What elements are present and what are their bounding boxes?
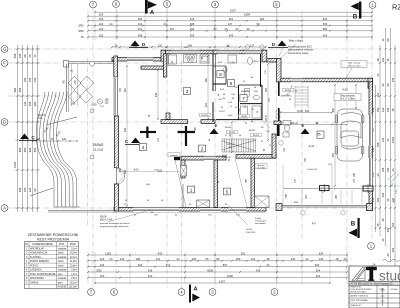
section marker E garage [301, 123, 310, 134]
section marker D left [129, 41, 148, 48]
svg-text:Ø110: Ø110 [253, 61, 259, 63]
grid bubble 7 bottom [88, 289, 95, 296]
svg-text:700: 700 [386, 167, 390, 172]
svg-text:150: 150 [99, 33, 104, 37]
svg-text:203: 203 [381, 192, 385, 197]
room label boxes [139, 71, 324, 195]
svg-text:24: 24 [225, 27, 228, 31]
extra hall micro labels [218, 87, 298, 207]
terrace bottom line [48, 210, 114, 212]
svg-text:A: A [150, 10, 154, 16]
svg-text:13x17,5: 13x17,5 [226, 144, 235, 146]
svg-text:183: 183 [192, 257, 197, 261]
exterior stair arcs [30, 92, 80, 207]
svg-text:ZESTAWIENIE POWIERZCHNI: ZESTAWIENIE POWIERZCHNI [28, 233, 79, 237]
grid bubble G left [1, 46, 8, 53]
svg-text:48: 48 [381, 218, 385, 221]
svg-text:380: 380 [33, 101, 37, 106]
svg-text:DG: DG [391, 183, 394, 187]
bathroom fixtures [228, 55, 261, 118]
west wall lower [114, 184, 118, 211]
svg-text:137: 137 [250, 44, 255, 47]
svg-text:wzmocnionej sciany: wzmocnionej sciany [288, 53, 309, 55]
svg-text:904: 904 [28, 147, 32, 152]
svg-text:RZU: RZU [392, 3, 400, 12]
svg-text:KOMUNIKACJA: KOMUNIKACJA [30, 252, 48, 255]
svg-text:312: 312 [138, 27, 143, 31]
svg-text:24: 24 [376, 173, 380, 176]
svg-text:70/205: 70/205 [241, 116, 248, 118]
kitchen counter [168, 65, 212, 67]
terrace west edge [66, 64, 68, 112]
garage north wall [281, 78, 373, 82]
svg-text:24: 24 [381, 83, 385, 86]
grid bubble 6 top [113, 1, 120, 8]
grid bubble A left [1, 205, 8, 212]
svg-text:24: 24 [386, 198, 390, 201]
svg-text:Wlaz z klapy: Wlaz z klapy [289, 39, 304, 43]
svg-text:B: B [353, 13, 358, 20]
garage columns at door line [320, 186, 330, 191]
interior dimension lines [111, 44, 357, 207]
svg-text:580: 580 [18, 87, 22, 92]
svg-text:98/205: 98/205 [225, 127, 232, 129]
svg-text:deski: deski [58, 265, 64, 267]
svg-text:deski: deski [58, 261, 64, 263]
svg-text:430: 430 [158, 251, 163, 255]
svg-text:A: A [3, 206, 6, 211]
svg-text:F: F [3, 61, 6, 66]
svg-text:12: 12 [33, 54, 37, 57]
svg-text:265: 265 [190, 22, 195, 26]
svg-text:13x17: 13x17 [219, 111, 226, 113]
svg-text:POMIESZCZENIE: POMIESZCZENIE [32, 243, 53, 246]
grid bubble 2 top [273, 1, 280, 8]
svg-text:123: 123 [99, 27, 104, 31]
svg-text:24: 24 [267, 263, 270, 267]
svg-text:48: 48 [336, 257, 339, 261]
svg-text:80/205: 80/205 [253, 135, 260, 137]
svg-text:120: 120 [28, 187, 32, 192]
duct block at south wall [197, 200, 210, 207]
terrace small circles [90, 109, 94, 113]
svg-text:3,1m²: 3,1m² [71, 247, 77, 250]
grid bubble 4 bottom [178, 289, 185, 296]
svg-text:DATA: DATA [380, 288, 385, 291]
svg-text:308: 308 [138, 33, 143, 37]
svg-text:40: 40 [386, 253, 390, 256]
misc annotations [100, 39, 399, 235]
svg-text:205: 205 [265, 87, 268, 92]
svg-text:306: 306 [188, 44, 193, 47]
svg-text:386: 386 [28, 101, 32, 106]
svg-text:31,2m2: 31,2m2 [93, 148, 104, 152]
svg-text:20,1m²: 20,1m² [70, 281, 77, 284]
grid bubble 6 bottom [111, 289, 118, 296]
svg-text:149: 149 [393, 198, 396, 203]
south wall small labels [125, 200, 241, 217]
interior wall kitchen south [141, 66, 167, 69]
section marker D right [268, 41, 288, 48]
garage lower rotated labels [286, 164, 356, 204]
duct block left [181, 166, 187, 177]
svg-text:RAZEM:: RAZEM: [57, 286, 66, 289]
svg-text:24: 24 [110, 257, 113, 261]
svg-text:100: 100 [158, 44, 163, 47]
svg-text:58: 58 [386, 38, 390, 41]
grid bubble 1 right [368, 243, 375, 250]
svg-text:SKALA 1:50: SKALA 1:50 [351, 304, 361, 307]
title block AT studio [349, 259, 400, 308]
svg-text:Bieg schodow: Bieg schodow [340, 96, 355, 98]
top dimension lines [79, 9, 373, 40]
svg-text:A: A [193, 287, 197, 293]
svg-text:132: 132 [381, 107, 385, 112]
svg-text:245+0+1,0kn: 245+0+1,0kn [348, 65, 362, 67]
garage north-east post [368, 78, 373, 88]
svg-text:624: 624 [316, 274, 321, 278]
svg-text:3: 3 [186, 89, 189, 94]
svg-text:298: 298 [124, 169, 127, 174]
svg-text:312: 312 [138, 22, 143, 26]
svg-text:800: 800 [323, 27, 328, 31]
svg-text:24: 24 [28, 54, 32, 57]
svg-text:24: 24 [391, 168, 395, 171]
svg-text:LAZIENKA: LAZIENKA [30, 269, 42, 272]
svg-text:624: 624 [323, 33, 328, 37]
circled fixture symbols [223, 45, 345, 215]
garage floor lines [283, 165, 362, 204]
north wall step post [161, 50, 166, 61]
svg-text:345: 345 [256, 268, 261, 272]
svg-text:24: 24 [306, 257, 309, 261]
svg-text:150: 150 [33, 77, 37, 82]
west wall upper [114, 56, 118, 77]
internal staircase [222, 139, 256, 152]
svg-text:1: 1 [190, 187, 193, 192]
svg-text:24: 24 [344, 257, 347, 261]
north wall kitchen segment [166, 50, 217, 54]
svg-text:310: 310 [148, 274, 153, 278]
svg-text:24: 24 [110, 22, 113, 26]
svg-text:WOLNOSTOJACY: WOLNOSTOJACY [351, 290, 368, 293]
svg-text:24: 24 [177, 257, 180, 261]
svg-text:KUCHNIA: KUCHNIA [30, 256, 41, 259]
svg-text:2: 2 [201, 146, 204, 151]
svg-text:1637: 1637 [230, 9, 236, 13]
svg-text:130: 130 [386, 107, 390, 112]
svg-text:90: 90 [33, 188, 37, 191]
svg-text:14,9m²: 14,9m² [70, 252, 77, 255]
room4 level line [119, 171, 180, 173]
svg-text:36: 36 [391, 108, 395, 111]
garage door line [283, 187, 366, 189]
left dimension lines [13, 45, 40, 212]
svg-text:1437: 1437 [219, 279, 225, 283]
svg-text:121,9m²: 121,9m² [69, 286, 78, 289]
svg-text:203: 203 [391, 222, 395, 227]
interior wall vestibule box [212, 54, 214, 91]
svg-text:708: 708 [376, 142, 380, 147]
grid bubble F left [1, 60, 8, 67]
svg-text:4: 4 [142, 145, 145, 150]
svg-text:155: 155 [28, 77, 32, 82]
svg-text:24: 24 [381, 238, 385, 241]
house south wall [114, 207, 266, 211]
hall south wall [181, 156, 226, 160]
west wall window [113, 77, 118, 116]
svg-text:studio: studio [379, 269, 400, 284]
svg-text:Ø30: Ø30 [79, 29, 84, 33]
garage south threshold [282, 204, 367, 206]
svg-text:Ø30: Ø30 [92, 104, 97, 107]
section flag A bottom [189, 285, 200, 303]
svg-text:240: 240 [291, 257, 296, 261]
svg-text:34: 34 [386, 58, 390, 61]
garage stair flight [295, 86, 308, 108]
svg-text:167: 167 [170, 27, 175, 31]
west wall middle [114, 116, 118, 168]
svg-text:6,00x2,30: 6,00x2,30 [307, 169, 317, 171]
svg-text:GARAZ: GARAZ [30, 281, 39, 284]
svg-text:41,8m²: 41,8m² [70, 260, 77, 263]
grid bubble 3 top [212, 1, 219, 8]
wall east of room5 [251, 158, 255, 207]
svg-text:358: 358 [18, 187, 22, 192]
svg-text:345: 345 [148, 268, 153, 272]
svg-text:391: 391 [241, 251, 246, 255]
west wall door with swings [114, 168, 119, 184]
svg-text:6,00: 6,00 [297, 109, 303, 113]
svg-text:110: 110 [376, 92, 380, 97]
east house post [277, 58, 281, 81]
svg-text:430: 430 [386, 227, 390, 232]
hall small labels [209, 62, 271, 156]
svg-text:103: 103 [381, 57, 385, 62]
grid bubble D left [1, 119, 8, 126]
wall between room1 and room5 [214, 160, 218, 207]
svg-text:B: B [351, 221, 356, 228]
section marker C right [125, 138, 143, 145]
stair small dim row [33, 140, 77, 142]
svg-text:wyprowadzona w bruzde: wyprowadzona w bruzde [288, 49, 314, 52]
interior wall garage separation [278, 82, 280, 96]
svg-text:345: 345 [229, 33, 234, 37]
svg-text:5: 5 [226, 189, 229, 194]
svg-text:60: 60 [214, 27, 217, 31]
svg-text:240: 240 [319, 257, 324, 261]
kitchen sink [200, 55, 209, 63]
svg-text:343: 343 [138, 263, 143, 267]
svg-text:Ø30: Ø30 [96, 268, 102, 272]
svg-text:590: 590 [13, 87, 17, 92]
svg-text:Ø30: Ø30 [79, 24, 84, 28]
svg-text:134: 134 [251, 257, 256, 261]
area table [25, 233, 79, 288]
svg-text:14+1,84m: 14+1,84m [257, 167, 266, 169]
svg-text:300: 300 [260, 17, 265, 21]
svg-text:130: 130 [381, 137, 385, 142]
terrace north edge [67, 61, 114, 63]
svg-text:terakota: terakota [58, 277, 67, 280]
svg-text:1004: 1004 [13, 162, 17, 168]
svg-text:ADRES: TOMICE 15: ADRES: TOMICE 15 [351, 295, 368, 298]
svg-text:04-UP: 04-UP [246, 229, 253, 231]
svg-text:348: 348 [18, 53, 22, 58]
svg-text:309: 309 [190, 33, 195, 37]
svg-text:D: D [3, 120, 6, 125]
svg-text:150: 150 [105, 101, 110, 104]
svg-text:AT-TB BIALOLEG ul. Swid Kregow: AT-TB BIALOLEG ul. Swid Kregowej 15 [351, 282, 394, 285]
svg-text:344: 344 [124, 127, 127, 132]
interior wall pom gosp [274, 121, 281, 125]
svg-text:12: 12 [381, 38, 385, 41]
svg-text:624: 624 [316, 268, 321, 272]
svg-text:60: 60 [236, 27, 239, 31]
svg-text:4,1m²: 4,1m² [71, 273, 77, 276]
north wall east link [267, 58, 281, 62]
svg-text:150: 150 [23, 187, 27, 192]
svg-text:137: 137 [228, 22, 233, 26]
svg-text:04.2004: 04.2004 [391, 289, 398, 291]
svg-text:4,50: 4,50 [342, 88, 348, 92]
svg-text:2,5m²: 2,5m² [71, 277, 77, 280]
svg-text:1060: 1060 [227, 274, 233, 278]
kitchen fridge [169, 55, 177, 64]
interior wall room3 south [161, 120, 188, 124]
svg-text:245: 245 [391, 77, 395, 82]
grid bubble 3 bottom [209, 289, 216, 296]
svg-text:POKOJ DZIENNY: POKOJ DZIENNY [30, 260, 50, 263]
grid bubble 5 top [164, 1, 171, 8]
svg-text:108: 108 [381, 167, 385, 172]
wall pom5 east v2 [272, 134, 276, 158]
section flag B top [351, 2, 362, 21]
svg-text:terakota: terakota [58, 247, 67, 250]
svg-text:90/205: 90/205 [229, 132, 236, 134]
svg-text:131: 131 [156, 257, 161, 261]
svg-text:168: 168 [71, 102, 76, 105]
svg-text:300: 300 [124, 87, 127, 92]
svg-text:133: 133 [120, 257, 125, 261]
svg-text:344: 344 [155, 92, 158, 97]
svg-text:E: E [302, 123, 305, 128]
svg-text:560: 560 [33, 147, 37, 152]
svg-text:867: 867 [223, 263, 228, 267]
svg-text:90/205: 90/205 [285, 90, 292, 92]
garage east wall [369, 82, 373, 211]
svg-text:kominek: kominek [170, 155, 177, 157]
svg-text:50: 50 [257, 22, 260, 26]
svg-text:POM. GOSPODARCZE: POM. GOSPODARCZE [30, 273, 56, 276]
svg-text:WOZOWNIA: WOZOWNIA [30, 277, 44, 280]
svg-text:14 x 17 x 28cm: 14 x 17 x 28cm [340, 99, 356, 101]
svg-text:150: 150 [100, 274, 105, 278]
svg-text:100/205: 100/205 [201, 115, 209, 117]
interior wall kitchen east upper [163, 54, 166, 77]
north-east post [262, 50, 267, 62]
svg-text:36: 36 [376, 58, 380, 61]
svg-text:123: 123 [100, 257, 105, 261]
svg-text:203: 203 [376, 197, 380, 202]
svg-text:123: 123 [100, 263, 105, 267]
svg-text:WIATROLAP: WIATROLAP [30, 247, 44, 250]
bottom dimension lines [87, 251, 348, 284]
svg-text:POKOJ: POKOJ [30, 264, 39, 267]
svg-text:150: 150 [236, 257, 241, 261]
svg-text:24: 24 [376, 73, 380, 76]
garage south posts [276, 204, 282, 211]
section flag A top [145, 0, 157, 16]
svg-text:POS.: POS. [59, 243, 65, 246]
duct block right of room5 [255, 196, 270, 208]
svg-text:360: 360 [205, 77, 208, 82]
section marker E hall [210, 123, 219, 134]
kitchen stove [184, 55, 197, 63]
svg-text:56: 56 [23, 54, 27, 57]
svg-text:150: 150 [376, 107, 380, 112]
living room pillar cross west [140, 131, 156, 133]
right dimension lines [371, 28, 396, 278]
svg-text:180: 180 [136, 257, 141, 261]
svg-text:terakota: terakota [58, 256, 67, 259]
svg-text:123: 123 [99, 22, 104, 26]
svg-text:24: 24 [386, 138, 390, 141]
svg-text:Ø30 1:0 AR: Ø30 1:0 AR [100, 219, 113, 222]
svg-text:146: 146 [395, 189, 398, 194]
svg-text:624: 624 [319, 251, 324, 255]
grid bubble 1 top [369, 2, 376, 9]
svg-text:4030: 4030 [207, 268, 213, 272]
terrace planting diamonds [68, 76, 94, 103]
svg-text:E: E [215, 123, 218, 128]
svg-text:RZUT PRZYZIEMIA: RZUT PRZYZIEMIA [37, 238, 70, 242]
living room pillar cross east [178, 131, 196, 133]
svg-text:przewod niezbedny do komina: przewod niezbedny do komina [100, 222, 130, 225]
svg-text:180: 180 [23, 77, 27, 82]
svg-text:10,8m²: 10,8m² [70, 264, 77, 267]
svg-text:116: 116 [265, 117, 268, 122]
svg-text:terakota: terakota [58, 269, 67, 272]
svg-text:310: 310 [190, 17, 195, 21]
svg-text:Wlot z klamy: Wlot z klamy [348, 61, 361, 64]
svg-text:48: 48 [267, 257, 270, 261]
svg-text:wmurowane: wmurowane [255, 223, 267, 225]
svg-text:80/205: 80/205 [249, 130, 256, 132]
svg-text:340: 340 [391, 247, 395, 252]
svg-text:12,1m²: 12,1m² [70, 256, 77, 259]
svg-text:130: 130 [23, 101, 27, 106]
section flag B bottom [349, 218, 360, 238]
svg-text:600: 600 [315, 263, 320, 267]
svg-text:TARAS: TARAS [93, 143, 105, 147]
svg-text:306: 306 [138, 17, 143, 21]
svg-text:455: 455 [332, 152, 335, 157]
svg-text:26: 26 [376, 223, 380, 226]
svg-text:30: 30 [247, 27, 250, 31]
svg-text:624: 624 [323, 17, 328, 21]
svg-text:964: 964 [18, 147, 22, 152]
svg-text:LP: LP [25, 243, 28, 246]
interior wall bath block [238, 85, 240, 120]
svg-text:65: 65 [206, 257, 209, 261]
svg-text:-0,01: -0,01 [228, 102, 234, 104]
section marker C left [19, 134, 37, 141]
svg-text:24: 24 [164, 22, 167, 26]
svg-text:7: 7 [242, 96, 245, 101]
svg-text:120: 120 [62, 138, 67, 141]
svg-text:48: 48 [386, 83, 390, 86]
